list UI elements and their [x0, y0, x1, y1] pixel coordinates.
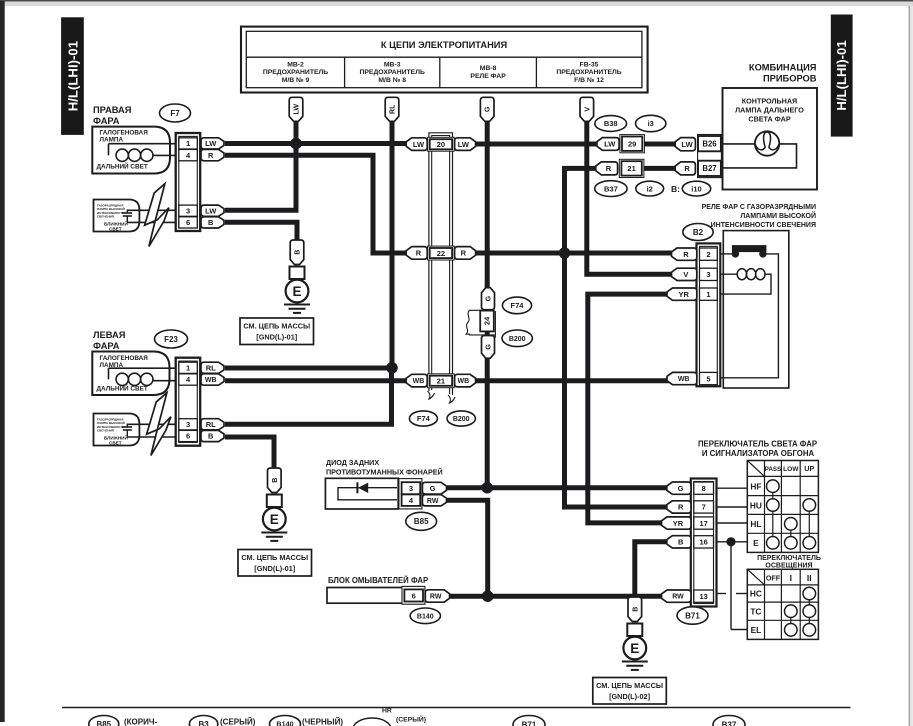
- svg-text:LW: LW: [681, 140, 693, 149]
- pin 7 B71: [694, 501, 714, 513]
- pin 17 B71: [694, 517, 714, 529]
- svg-text:LOW: LOW: [783, 466, 799, 473]
- svg-text:B38: B38: [604, 119, 618, 128]
- wire LW connector 20 to i3 connector: [473, 142, 598, 147]
- wire lamp F7 pin4 lead: [153, 154, 180, 156]
- label B:: [671, 184, 680, 194]
- svg-text:ЛАМПА: ЛАМПА: [100, 137, 124, 144]
- svg-text:LW: LW: [604, 140, 616, 149]
- connector ref i10: [682, 181, 710, 196]
- fuse MB-2 cell: [263, 62, 328, 84]
- wire color R left of 22: [406, 247, 427, 260]
- connector ref B38: [595, 116, 627, 132]
- wire RW from diode down: [447, 500, 488, 596]
- connector ref B2: [683, 224, 713, 241]
- scan left edge: [0, 1, 5, 722]
- connector strip B26/B27: [698, 135, 722, 178]
- wire color G pin8 B71: [667, 482, 691, 494]
- contact EL-II: [803, 624, 816, 637]
- wire color RL pin1 F23: [201, 362, 224, 373]
- svg-text:B140: B140: [276, 720, 293, 726]
- svg-text:G: G: [430, 484, 436, 493]
- wire color LW drop MB-2: [289, 97, 303, 121]
- wire color LW right of 20: [455, 138, 476, 151]
- svg-text:ГАЛОГЕНОВАЯ: ГАЛОГЕНОВАЯ: [100, 355, 149, 362]
- connector pin B26: [698, 136, 721, 151]
- wire color G drop MB-8: [480, 97, 494, 121]
- wire color LW at B26: [675, 138, 695, 151]
- svg-text:ЛАМПА ДАЛЬНЕГО: ЛАМПА ДАЛЬНЕГО: [735, 106, 804, 115]
- wire color R pin2 B2: [672, 248, 697, 260]
- svg-text:СВЕТА ФАР: СВЕТА ФАР: [748, 115, 790, 124]
- svg-text:R: R: [684, 164, 690, 173]
- connector pin B27: [698, 161, 721, 176]
- contact HU-UP: [803, 499, 816, 512]
- svg-text:5: 5: [706, 374, 710, 383]
- wire R branch down to switch pin 7: [565, 253, 669, 507]
- contact E-UP: [803, 537, 816, 550]
- svg-text:B200: B200: [509, 336, 526, 343]
- wire R branch up to i3 connector 21: [565, 168, 598, 253]
- contact HC-II: [803, 587, 816, 600]
- svg-text:ЛЕВАЯ: ЛЕВАЯ: [93, 330, 126, 340]
- label rear fog diode: [326, 458, 443, 477]
- svg-text:PASS: PASS: [765, 466, 781, 473]
- link E node down to EL row: [731, 542, 747, 630]
- contact HL-LOW: [785, 518, 798, 531]
- svg-text:ПРЕДОХРАНИТЕЛЬ: ПРЕДОХРАНИТЕЛЬ: [556, 69, 621, 76]
- svg-text:B26: B26: [702, 140, 717, 149]
- svg-text:РЕЛЕ ФАР: РЕЛЕ ФАР: [470, 73, 506, 80]
- svg-text:R: R: [678, 503, 684, 512]
- svg-text:B27: B27: [702, 164, 716, 173]
- svg-text:G: G: [486, 295, 493, 301]
- wire color RL pin3 F23: [201, 419, 224, 430]
- svg-text:[GND(L)-02]: [GND(L)-02]: [609, 692, 651, 701]
- svg-text:B: B: [632, 607, 639, 612]
- wire color G pin3 B85: [422, 482, 446, 494]
- wire lamp F23 pin3 lead: [127, 423, 180, 425]
- svg-text:21: 21: [627, 164, 635, 173]
- svg-text:29: 29: [628, 139, 636, 148]
- svg-text:i10: i10: [691, 184, 701, 193]
- ground reference GND(L)-01 right: [240, 318, 314, 345]
- wire R connector 22 to relay pin 2: [473, 251, 674, 256]
- svg-text:LW: LW: [413, 140, 425, 149]
- wire color R right of 22: [455, 247, 476, 260]
- svg-text:WB: WB: [205, 377, 217, 384]
- label combination meter: [749, 63, 817, 84]
- svg-text:II: II: [807, 573, 812, 583]
- wire LW i3 to combination meter B26: [643, 142, 677, 147]
- svg-text:M/B № 9: M/B № 9: [282, 77, 310, 84]
- svg-text:E: E: [292, 284, 301, 299]
- svg-text:СВЕЧЕНИЯ: СВЕЧЕНИЯ: [97, 429, 114, 433]
- wire color RW pin13 B71: [662, 590, 692, 602]
- connector ref B140: [410, 608, 440, 624]
- svg-text:БЛОК ОМЫВАТЕЛЕЙ ФАР: БЛОК ОМЫВАТЕЛЕЙ ФАР: [328, 576, 428, 585]
- svg-text:UP: UP: [804, 464, 814, 473]
- svg-text:ПРАВАЯ: ПРАВАЯ: [93, 105, 132, 115]
- junction LW node: [290, 138, 302, 150]
- svg-text:ДАЛЬНИЙ СВЕТ: ДАЛЬНИЙ СВЕТ: [97, 162, 148, 171]
- contact HU-PASS: [767, 499, 780, 512]
- connector pin 21 i2: [619, 159, 644, 177]
- svg-text:B: B: [295, 250, 302, 255]
- svg-text:ПЕРЕКЛЮЧАТЕЛЬ: ПЕРЕКЛЮЧАТЕЛЬ: [757, 555, 821, 562]
- svg-text:3: 3: [186, 420, 190, 429]
- connector strip B85: [399, 479, 422, 509]
- connector 24 break squiggle: [466, 310, 495, 337]
- svg-text:EL: EL: [751, 625, 762, 635]
- svg-text:(ЧЕРНЫЙ): (ЧЕРНЫЙ): [302, 718, 343, 726]
- legend ref B3: [189, 716, 217, 726]
- svg-text:ЛАМПАМИ ВЫСОКОЙ: ЛАМПАМИ ВЫСОКОЙ: [740, 211, 816, 220]
- svg-text:R: R: [606, 164, 612, 173]
- wire color G above 24: [482, 288, 495, 310]
- wire color B pin16 B71: [667, 536, 691, 548]
- wire meter lamp left: [723, 143, 756, 145]
- scan top edge: [0, 0, 913, 6]
- svg-text:F7: F7: [170, 109, 180, 118]
- halogen filament coil F23: [116, 373, 153, 385]
- diode internal wiring: [338, 488, 397, 500]
- svg-text:B: B: [208, 432, 214, 441]
- wire color LW pin3 F7: [201, 205, 224, 216]
- svg-text:i3: i3: [648, 119, 654, 128]
- svg-text:RW: RW: [430, 594, 442, 601]
- svg-text:F74: F74: [417, 414, 431, 423]
- junction G node: [481, 482, 493, 494]
- svg-text:СВЕТ: СВЕТ: [109, 227, 122, 232]
- wire RW washer unit to switch pin 13: [450, 594, 669, 599]
- svg-text:TC: TC: [750, 607, 761, 617]
- ground reference GND(L)-01 left: [238, 550, 312, 577]
- legend ref B85: [89, 716, 119, 726]
- combination meter box: [723, 88, 818, 190]
- wire color V drop FB-35: [580, 97, 594, 121]
- pin 4 F23: [179, 374, 198, 385]
- wire color WB pin4 F23: [201, 374, 224, 385]
- connector ref F23: [155, 330, 188, 348]
- pin 3 B85: [402, 482, 421, 494]
- svg-text:RW: RW: [427, 498, 439, 505]
- connector pin 22: [428, 246, 455, 260]
- svg-text:YR: YR: [678, 290, 689, 299]
- ground reference GND(L)-02: [593, 678, 667, 705]
- lighting switch table: [747, 569, 818, 639]
- svg-text:8: 8: [702, 484, 706, 493]
- high voltage flash symbol F7: [145, 184, 169, 247]
- pin 4 F7: [179, 149, 198, 160]
- svg-text:7: 7: [702, 503, 706, 512]
- wire color RL drop MB-3: [385, 97, 399, 121]
- svg-text:E: E: [630, 641, 639, 656]
- legend ref B140: [270, 716, 301, 726]
- pin 1 B2: [700, 288, 718, 300]
- fuse MB-3 cell: [360, 62, 425, 84]
- wire V vertical from fuse FB-35: [587, 119, 674, 274]
- pin 5 B2: [700, 372, 718, 384]
- ground E switch B71: [622, 597, 648, 670]
- contact TC-II: [803, 605, 816, 618]
- label HID relay: [702, 204, 816, 229]
- svg-text:[GND(L)-01]: [GND(L)-01]: [256, 333, 298, 342]
- svg-text:ПРОТИВОТУМАННЫХ ФОНАРЕЙ: ПРОТИВОТУМАННЫХ ФОНАРЕЙ: [326, 468, 443, 477]
- svg-text:WB: WB: [413, 378, 425, 385]
- svg-text:G: G: [485, 106, 492, 112]
- svg-text:V: V: [584, 107, 591, 112]
- connector strip B71: [691, 479, 717, 607]
- pin 8 B71: [694, 482, 714, 494]
- svg-text:ПРЕДОХРАНИТЕЛЬ: ПРЕДОХРАНИТЕЛЬ: [360, 69, 425, 76]
- right page label H/L(LHI)-01: [831, 15, 853, 137]
- svg-text:LW: LW: [458, 140, 470, 149]
- svg-text:G: G: [678, 484, 684, 493]
- connector strip F7: [176, 133, 201, 231]
- wire R from right headlamp pin 4: [225, 155, 409, 253]
- ground E right headlamp: [284, 240, 310, 313]
- wire color LW pin1 F7: [201, 138, 224, 149]
- svg-text:B85: B85: [96, 720, 111, 726]
- connector ref i3: [636, 115, 666, 131]
- svg-text:HR: HR: [382, 708, 392, 715]
- svg-text:M/B № 8: M/B № 8: [378, 77, 406, 84]
- relay coil: [721, 269, 772, 295]
- svg-text:КОНТРОЛЬНАЯ: КОНТРОЛЬНАЯ: [742, 97, 797, 106]
- connector pin 20: [428, 137, 455, 151]
- svg-text:6: 6: [186, 432, 190, 441]
- left page label H/L(LHI)-01: [61, 17, 84, 135]
- label headlamp washer unit: [328, 576, 428, 585]
- wire color B pin6 F23: [201, 430, 224, 441]
- svg-text:MB-3: MB-3: [384, 62, 401, 69]
- svg-text:E: E: [270, 512, 279, 527]
- high voltage flash symbol F23: [147, 393, 171, 456]
- ground E left headlamp: [261, 468, 287, 541]
- diode component box: [325, 478, 398, 509]
- svg-text:B2: B2: [693, 228, 704, 237]
- svg-text:LW: LW: [205, 206, 217, 215]
- svg-text:БЛИЖНИЙ: БЛИЖНИЙ: [104, 433, 128, 440]
- pin 16 B71: [694, 536, 714, 548]
- svg-text:17: 17: [699, 519, 707, 528]
- svg-text:СВЕТ: СВЕТ: [109, 441, 122, 446]
- wire color R pin7 B71: [667, 501, 691, 513]
- svg-text:LW: LW: [294, 104, 301, 115]
- svg-text:2: 2: [706, 250, 710, 259]
- connector ref B71: [677, 607, 708, 624]
- svg-text:ИНТЕНСИВНОСТИ СВЕЧЕНИЯ: ИНТЕНСИВНОСТИ СВЕЧЕНИЯ: [711, 222, 816, 229]
- high beam indicator lamp U1: [755, 131, 779, 155]
- wire color R at i2: [596, 162, 618, 175]
- discharge lamp electrodes F7: [122, 210, 132, 223]
- svg-text:H/L(LHI)-01: H/L(LHI)-01: [834, 40, 849, 110]
- label left headlamp (ЛЕВАЯ ФАРА): [93, 330, 126, 351]
- connector ref F74 upper: [502, 297, 531, 314]
- wire color R at B27: [675, 162, 695, 175]
- relay contact: [721, 245, 779, 378]
- wire LW vertical from fuse MB-2: [294, 119, 299, 210]
- legend label brown: [124, 718, 157, 726]
- contact links table1: [773, 493, 810, 537]
- svg-text:B: B: [208, 218, 214, 227]
- svg-text:21: 21: [437, 376, 445, 385]
- junction RL node: [386, 362, 398, 374]
- wire color YR pin1 B2: [667, 288, 697, 300]
- wire color RW pin6 B140: [425, 590, 449, 602]
- halogen filament coil F7: [116, 149, 153, 161]
- wire lamp F23 pin1 lead: [109, 368, 181, 379]
- svg-text:YR: YR: [673, 519, 684, 528]
- wire LW bus to right headlamp pin 1: [225, 141, 409, 146]
- relay outline box B2: [723, 231, 789, 388]
- fuse FB-35 cell: [556, 62, 621, 84]
- svg-text:ДИОД ЗАДНИХ: ДИОД ЗАДНИХ: [326, 458, 379, 467]
- legend ref B37: [713, 716, 745, 726]
- svg-text:16: 16: [699, 538, 707, 547]
- svg-text:[GND(L)-01]: [GND(L)-01]: [254, 564, 296, 573]
- svg-text:СВЕЧЕНИЯ: СВЕЧЕНИЯ: [97, 215, 114, 219]
- svg-text:(СЕРЫЙ): (СЕРЫЙ): [220, 718, 256, 726]
- svg-text:HC: HC: [750, 589, 762, 599]
- svg-text:H/L(LHI)-01: H/L(LHI)-01: [65, 41, 80, 111]
- connector strip B140: [402, 586, 425, 604]
- washer unit box: [327, 588, 403, 604]
- svg-text:F23: F23: [164, 335, 178, 344]
- svg-text:1: 1: [186, 139, 190, 148]
- connector pin 21: [428, 374, 455, 388]
- label high beam indicator: [735, 97, 804, 124]
- wire color YR pin17 B71: [662, 517, 692, 529]
- pin 6 F7: [179, 217, 198, 228]
- svg-text:3: 3: [409, 484, 413, 493]
- connector strip B2: [697, 243, 721, 386]
- junction switch E node: [726, 537, 735, 546]
- connector ref B200 upper: [502, 330, 532, 347]
- wire color WB pin5 B2: [667, 372, 697, 384]
- halogen high-beam lamp box F7: [92, 127, 170, 174]
- svg-text:R: R: [416, 249, 422, 258]
- wire RL vertical from fuse MB-3: [390, 119, 395, 368]
- legend separator rule: [62, 707, 851, 709]
- label lighting switch: [757, 555, 821, 570]
- svg-text:MB-8: MB-8: [480, 65, 497, 72]
- svg-text:B200: B200: [453, 416, 470, 423]
- svg-text:V: V: [683, 270, 688, 279]
- wire lamp F7 pin1 lead: [109, 144, 181, 156]
- pin 1 F23: [179, 362, 198, 373]
- link pin13 to HC row: [717, 593, 748, 595]
- svg-text:И СИГНАЛИЗАТОРА ОБГОНА: И СИГНАЛИЗАТОРА ОБГОНА: [702, 449, 815, 458]
- pin 6 B140: [404, 589, 423, 601]
- wire WB from left headlamp pin 4: [225, 378, 409, 383]
- legend ref HR: [353, 708, 426, 726]
- svg-text:i2: i2: [647, 184, 653, 193]
- svg-text:24: 24: [483, 316, 492, 325]
- svg-text:РЕЛЕ ФАР С ГАЗОРАЗРЯДНЫМИ: РЕЛЕ ФАР С ГАЗОРАЗРЯДНЫМИ: [702, 204, 816, 211]
- svg-text:КОМБИНАЦИЯ: КОМБИНАЦИЯ: [749, 63, 817, 73]
- svg-text:HL: HL: [750, 519, 761, 529]
- svg-text:ПРИБОРОВ: ПРИБОРОВ: [763, 74, 817, 84]
- wire RL to left headlamp pin 3: [225, 368, 392, 425]
- pin 4 B85: [402, 494, 421, 506]
- pin 3 F23: [179, 419, 198, 430]
- dimmer switch table: [747, 461, 818, 553]
- svg-text:B71: B71: [522, 720, 537, 726]
- svg-text:F74: F74: [511, 301, 525, 310]
- wire B right headlamp pin 6 to ground: [225, 222, 297, 241]
- connector pin 29: [620, 135, 645, 153]
- wire color WB left of 21: [406, 374, 427, 387]
- svg-text:RL: RL: [206, 420, 216, 429]
- wire RL bus to left headlamp pin 1: [225, 366, 392, 371]
- link pin7 to HU row: [717, 506, 748, 508]
- svg-text:6: 6: [412, 591, 416, 600]
- discharge low-beam lamp box F23: [94, 414, 140, 446]
- svg-text:(КОРИЧ-: (КОРИЧ-: [124, 718, 157, 726]
- svg-text:К ЦЕПИ ЭЛЕКТРОПИТАНИЯ: К ЦЕПИ ЭЛЕКТРОПИТАНИЯ: [381, 40, 508, 50]
- connector ref B85: [406, 512, 437, 530]
- svg-text:ПРЕДОХРАНИТЕЛЬ: ПРЕДОХРАНИТЕЛЬ: [263, 69, 328, 76]
- contact E-PASS: [767, 537, 780, 550]
- wire B left headlamp pin 6 to ground: [225, 437, 274, 470]
- svg-text:WB: WB: [458, 378, 470, 385]
- svg-text:B71: B71: [685, 611, 700, 620]
- legend label gray: [220, 718, 256, 726]
- svg-text:I: I: [790, 573, 792, 583]
- pin 3 B2: [700, 268, 718, 280]
- wire meter lamp right loop: [723, 144, 797, 168]
- halogen high-beam lamp box F23: [92, 352, 169, 396]
- svg-text:ФАРА: ФАРА: [93, 116, 120, 126]
- connector strip F23: [176, 358, 201, 446]
- svg-text:3: 3: [186, 206, 190, 215]
- wire color G below 24: [482, 336, 495, 359]
- link pin17 to HL row: [717, 522, 748, 524]
- contact links table2: [791, 600, 810, 624]
- contact E-LOW: [785, 537, 798, 550]
- wire YR relay pin 1 to switch pin 17: [588, 294, 674, 523]
- link pin16 to E row: [717, 541, 748, 543]
- wire color R pin4 F7: [201, 149, 224, 160]
- discharge low-beam lamp box F7: [94, 200, 140, 232]
- relay MB-8 cell: [470, 65, 506, 80]
- svg-text:1: 1: [186, 364, 190, 373]
- wire color LW left of 20: [406, 138, 427, 151]
- contact TC-I: [785, 605, 798, 618]
- connector ref i2: [636, 181, 664, 196]
- svg-text:ФАРА: ФАРА: [93, 341, 120, 351]
- svg-text:20: 20: [437, 140, 445, 149]
- svg-text:G: G: [486, 344, 493, 350]
- wire color LW at i3: [597, 138, 619, 151]
- wire color WB right of 21: [455, 374, 476, 387]
- wire lamp F23 pin4 lead: [153, 380, 180, 382]
- connector pin 24: [480, 311, 494, 332]
- svg-text:R: R: [208, 151, 214, 160]
- label dimmer passing switch: [698, 440, 817, 459]
- svg-text:F/B № 12: F/B № 12: [574, 77, 604, 84]
- svg-text:B37: B37: [722, 720, 737, 726]
- svg-text:СМ. ЦЕПЬ МАССЫ: СМ. ЦЕПЬ МАССЫ: [243, 321, 310, 330]
- svg-text:ПЕРЕКЛЮЧАТЕЛЬ СВЕТА ФАР: ПЕРЕКЛЮЧАТЕЛЬ СВЕТА ФАР: [698, 440, 817, 449]
- svg-text:OFF: OFF: [766, 574, 781, 583]
- connector ref F7: [160, 104, 191, 122]
- wire WB connector 21 to relay pin 5: [473, 378, 669, 383]
- pin 2 B2: [700, 248, 718, 260]
- discharge lamp electrodes F23: [122, 424, 132, 437]
